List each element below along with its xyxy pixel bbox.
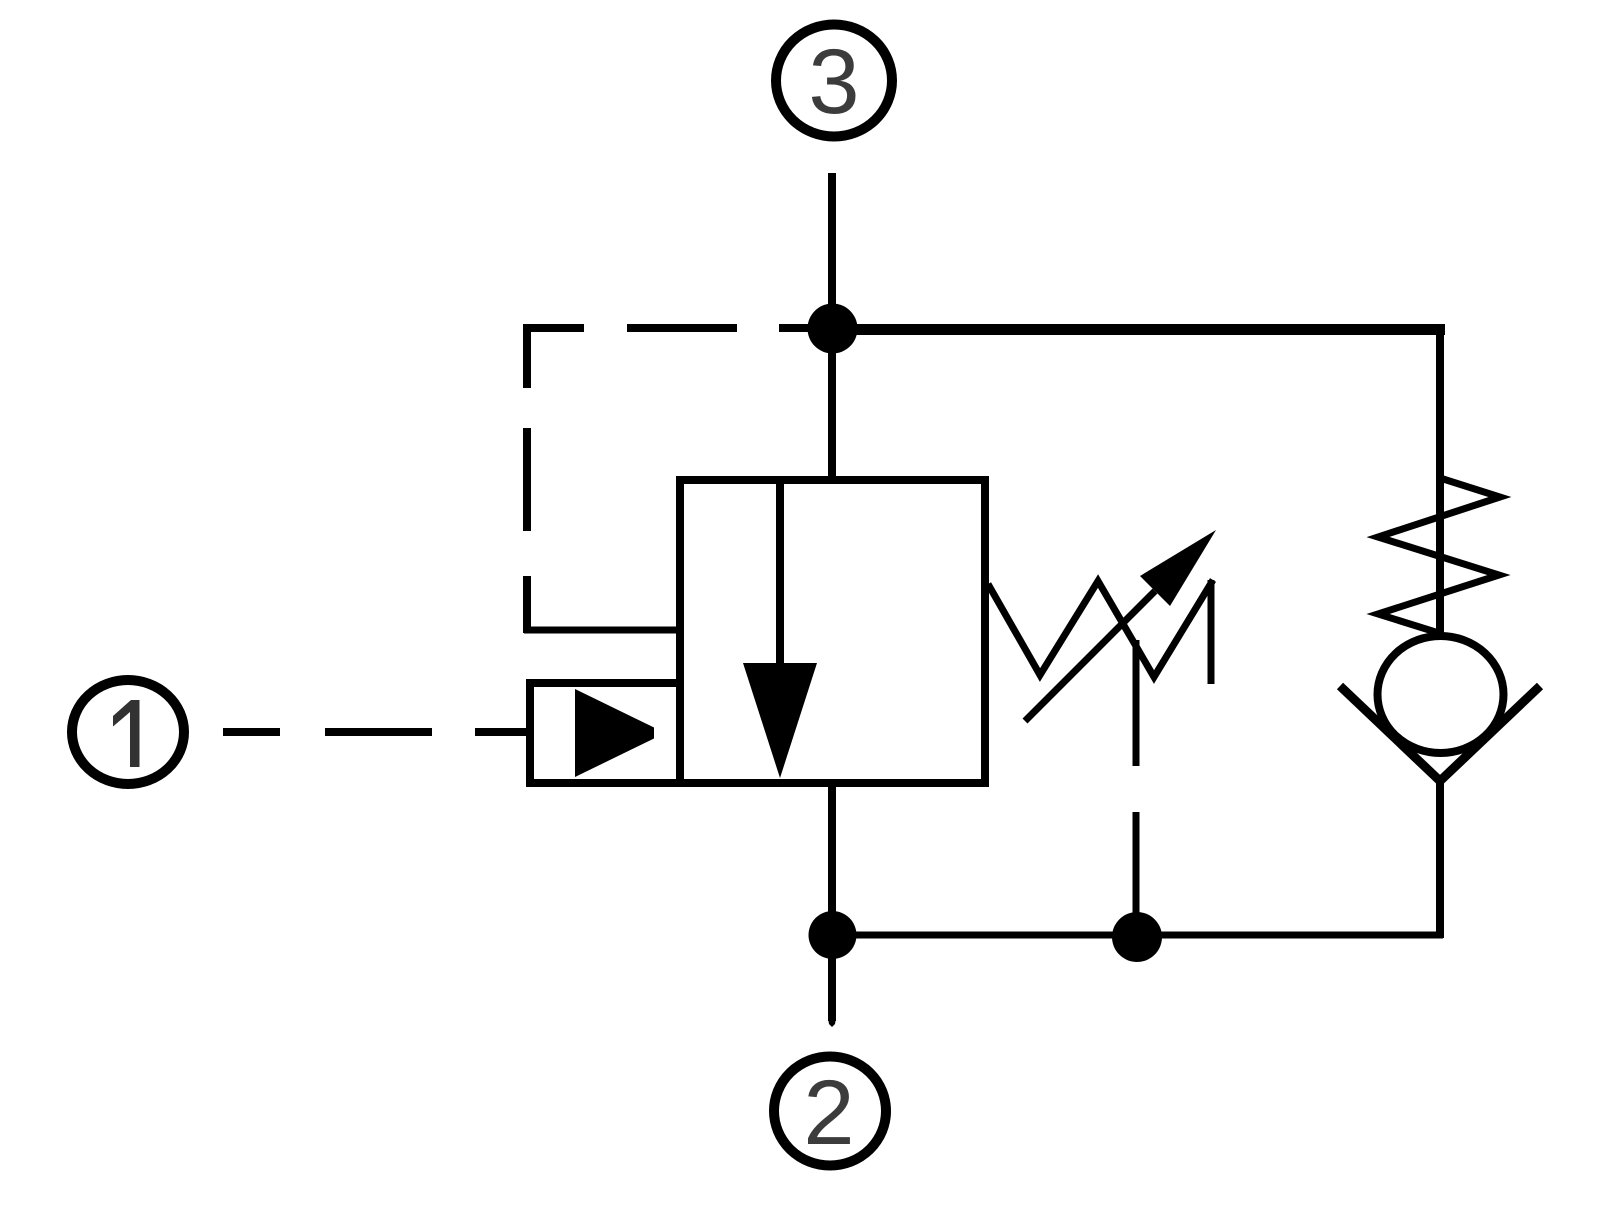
svg-text:2: 2	[803, 1062, 854, 1164]
svg-text:3: 3	[808, 31, 859, 133]
